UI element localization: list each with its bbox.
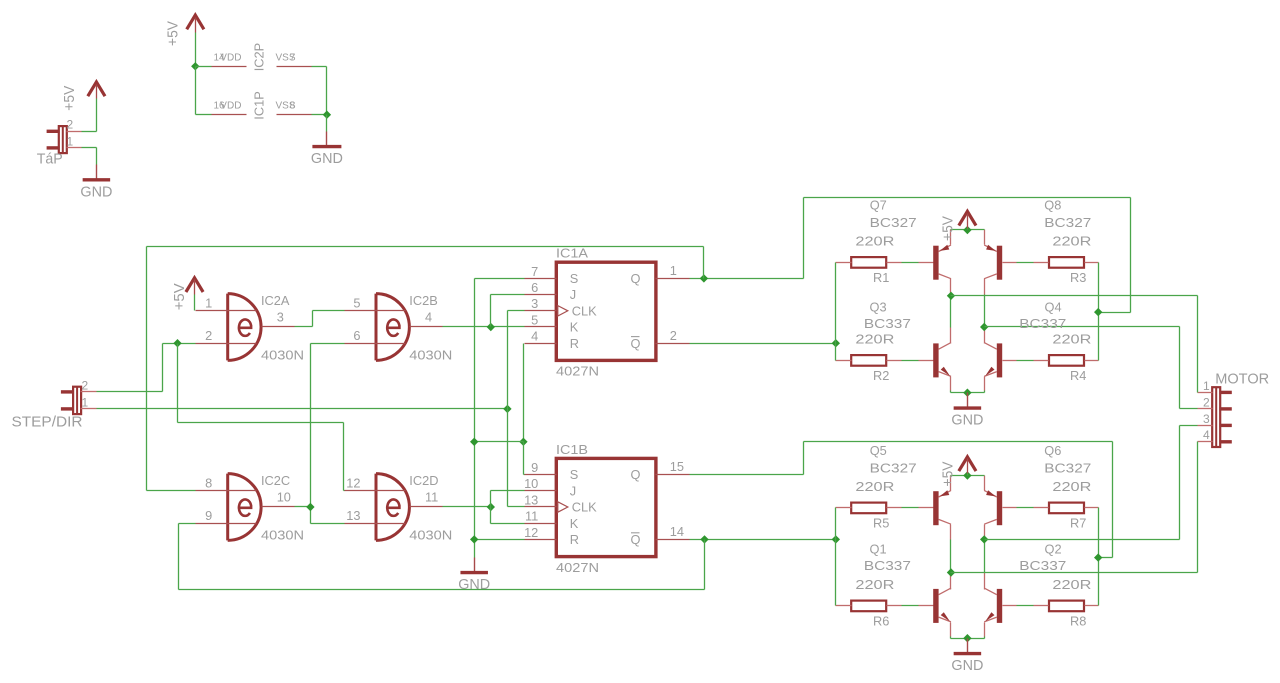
svg-text:BC337: BC337 [864,316,911,331]
svg-text:3: 3 [1203,412,1210,426]
svg-text:R2: R2 [873,368,889,383]
svg-text:4030N: 4030N [409,527,452,542]
svg-text:Q7: Q7 [870,198,887,213]
svg-text:VDD: VDD [220,52,241,63]
svg-text:S: S [570,467,579,482]
svg-text:Q2: Q2 [1045,542,1062,557]
svg-text:Q: Q [631,532,641,547]
svg-text:5: 5 [353,296,360,311]
svg-text:2: 2 [67,118,74,132]
svg-text:IC1A: IC1A [556,246,589,261]
svg-text:Q6: Q6 [1044,443,1061,458]
svg-text:Q3: Q3 [870,300,887,315]
svg-text:2: 2 [205,328,212,343]
svg-text:4: 4 [1203,428,1210,442]
svg-text:+5V: +5V [165,21,182,46]
svg-text:S: S [570,271,579,286]
svg-text:GND: GND [458,576,490,593]
svg-text:Q1: Q1 [870,542,887,557]
svg-text:MOTOR: MOTOR [1215,371,1269,388]
svg-text:IC1B: IC1B [556,442,588,457]
svg-text:IC2B: IC2B [409,293,437,308]
svg-text:5: 5 [531,312,538,327]
svg-text:4027N: 4027N [556,560,599,575]
svg-text:220R: 220R [1052,332,1091,347]
svg-text:R: R [570,532,579,547]
svg-text:9: 9 [205,508,212,523]
svg-text:IC2A: IC2A [261,293,290,308]
svg-text:J: J [570,287,576,302]
svg-text:220R: 220R [855,234,894,249]
svg-text:Q: Q [631,336,641,351]
svg-text:9: 9 [531,460,538,475]
svg-text:R8: R8 [1070,614,1086,629]
svg-text:7: 7 [290,52,296,63]
svg-text:220R: 220R [1052,479,1091,494]
svg-text:R7: R7 [1070,516,1086,531]
svg-text:3: 3 [277,310,284,325]
svg-text:IC2C: IC2C [261,473,290,488]
svg-text:13: 13 [524,492,538,507]
svg-text:3: 3 [531,296,538,311]
svg-text:K: K [570,516,579,531]
svg-text:R1: R1 [873,270,889,285]
svg-text:2: 2 [670,328,677,343]
svg-text:R6: R6 [873,614,889,629]
svg-text:Q: Q [631,271,641,286]
svg-text:220R: 220R [1052,577,1091,592]
svg-text:BC327: BC327 [1044,215,1091,230]
svg-text:1: 1 [82,395,89,409]
svg-text:10: 10 [277,490,291,505]
svg-text:IC2P: IC2P [252,43,267,71]
svg-text:R4: R4 [1070,368,1086,383]
svg-text:BC327: BC327 [1044,461,1091,476]
svg-text:13: 13 [346,508,360,523]
svg-text:BC327: BC327 [870,215,917,230]
svg-text:7: 7 [531,264,538,279]
svg-text:GND: GND [951,657,983,674]
svg-text:2: 2 [1203,395,1210,409]
svg-text:IC2D: IC2D [409,473,438,488]
svg-text:+5V: +5V [940,216,957,241]
svg-text:Q8: Q8 [1044,198,1061,213]
svg-text:STEP/DIR: STEP/DIR [12,414,83,431]
svg-text:1: 1 [67,134,74,148]
svg-text:4027N: 4027N [556,364,599,379]
svg-text:BC337: BC337 [1019,316,1066,331]
svg-text:Q5: Q5 [870,443,887,458]
svg-text:14: 14 [670,524,684,539]
svg-text:BC337: BC337 [864,558,911,573]
svg-text:4030N: 4030N [409,347,452,362]
svg-text:12: 12 [524,525,538,540]
svg-text:K: K [570,320,579,335]
svg-text:12: 12 [346,476,360,491]
svg-text:GND: GND [951,412,983,429]
svg-text:6: 6 [531,280,538,295]
svg-text:GND: GND [311,150,343,167]
svg-text:Q4: Q4 [1045,300,1062,315]
svg-text:11: 11 [525,509,538,524]
svg-text:1: 1 [205,296,212,311]
svg-text:220R: 220R [855,332,894,347]
svg-text:R5: R5 [873,516,889,531]
svg-text:1: 1 [670,263,677,278]
svg-text:R: R [570,336,579,351]
svg-text:4: 4 [531,329,538,344]
svg-text:4: 4 [425,310,432,325]
svg-text:VDD: VDD [220,101,241,112]
svg-text:+5V: +5V [171,283,188,310]
svg-text:1: 1 [1203,379,1210,393]
svg-text:8: 8 [290,101,296,112]
svg-text:15: 15 [670,459,684,474]
svg-text:IC1P: IC1P [252,91,267,119]
svg-text:BC327: BC327 [870,461,917,476]
svg-text:8: 8 [205,476,212,491]
svg-text:J: J [570,483,576,498]
svg-text:220R: 220R [855,479,894,494]
svg-text:GND: GND [80,183,112,200]
svg-text:4030N: 4030N [261,347,304,362]
svg-text:R3: R3 [1070,270,1086,285]
svg-text:6: 6 [353,328,360,343]
svg-text:4030N: 4030N [261,527,304,542]
svg-text:+5V: +5V [940,462,957,487]
svg-text:11: 11 [425,490,438,505]
svg-text:+5V: +5V [61,86,78,111]
svg-text:TáP: TáP [37,151,63,168]
svg-text:220R: 220R [855,577,894,592]
svg-text:CLK: CLK [572,303,597,318]
svg-text:CLK: CLK [572,500,597,515]
svg-text:BC337: BC337 [1019,558,1066,573]
svg-text:2: 2 [82,378,89,392]
svg-text:10: 10 [524,476,538,491]
svg-text:Q: Q [631,467,641,482]
svg-text:220R: 220R [1052,234,1091,249]
